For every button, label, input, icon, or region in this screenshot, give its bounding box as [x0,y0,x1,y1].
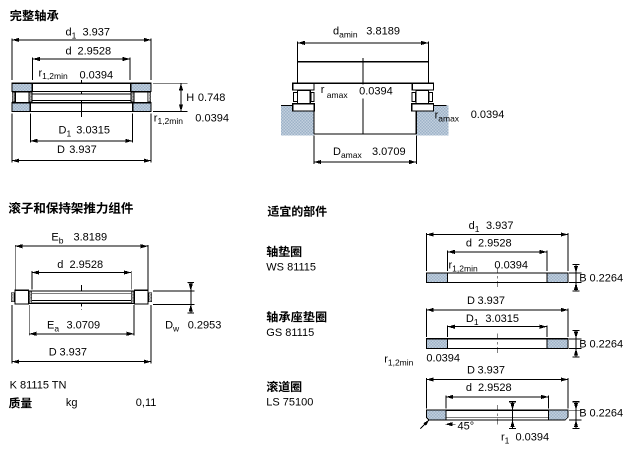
dimension d1 3.937 (WS) [425,233,427,271]
cage bar cross-section right [131,291,134,303]
svg-text:3.937: 3.937 [486,220,514,232]
mass row: 质量 kg 0,11 [9,397,32,408]
svg-text:B: B [579,273,586,285]
housing washer (bottom) outline [12,103,151,112]
dimension B 0.2264 (GS) [569,338,582,340]
housing fill right (abutment) [416,105,448,135]
svg-text:0.0394: 0.0394 [80,69,114,81]
centerline washer LS [496,405,498,426]
svg-text:D: D [49,346,57,358]
roller row left: cage strips and roller [12,92,15,102]
svg-text:0.2264: 0.2264 [590,339,624,351]
washer WS 81115 cross-section [426,273,568,283]
centerline washer GS [496,333,498,354]
label shaft washer (轴垫圈) [267,246,302,257]
dimension d_amin 3.8189 / support shoulder sides [297,42,299,83]
dimension d1 3.937 (top) [11,39,13,80]
svg-text:3.0709: 3.0709 [372,146,406,158]
svg-text:0.0394: 0.0394 [471,109,505,121]
cage rim right end [149,293,152,302]
svg-text:3.0315: 3.0315 [76,125,110,137]
svg-text:K 81115 TN: K 81115 TN [10,380,67,392]
centerline washer WS [496,268,498,289]
dimension H 0.748 (right) [153,82,188,84]
svg-text:0.0394: 0.0394 [359,86,393,98]
mounted rollers left [294,93,298,102]
housing washer left (in seat) [293,104,315,111]
cage bar [29,291,134,303]
housing seat edges [281,104,293,106]
label raceway ring (滚道圈) [267,381,302,392]
svg-text:0.2264: 0.2264 [590,273,624,285]
shaft washer top surface middle segment [314,82,412,84]
raceway inner line (LS) [446,416,548,418]
svg-text:2.9528: 2.9528 [70,259,104,271]
svg-text:3.8189: 3.8189 [366,26,400,38]
svg-text:D: D [467,365,475,377]
housing fill left (abutment) [281,105,314,135]
dimension D1 3.0315 (GS) [447,325,449,337]
svg-text:0.748: 0.748 [198,92,226,104]
dimension d 2.9528 (LS) [445,396,447,409]
svg-text:3.937: 3.937 [478,365,506,377]
dimension d 2.9528 (WS) [447,251,449,272]
roller row right: cage strips and roller [131,92,134,102]
svg-text:d: d [66,46,72,58]
title: roller and cage thrust assembly (滚子和保持架推力组件) [9,202,133,214]
svg-text:H: H [186,92,194,104]
svg-text:3.937: 3.937 [478,295,506,307]
roller right [134,290,148,304]
title: complete bearing (完整轴承) [10,10,58,22]
cage bar cross-section left [29,291,32,303]
svg-text:45°: 45° [458,421,475,433]
svg-text:D: D [57,144,65,156]
housing washer cross-section fill left [13,103,31,111]
shaft washer (top) outline [12,83,151,91]
centerline of complete bearing [81,80,83,117]
cage rim left end [11,293,14,302]
label housing seat washer (轴承座垫圈) [267,311,327,322]
svg-text:3.937: 3.937 [83,27,111,39]
svg-text:d: d [466,382,472,394]
svg-text:amax: amax [327,90,349,100]
svg-text:d: d [57,259,63,271]
chamfer 45 deg callout [421,420,430,429]
dimension D 3.937 (GS) [425,309,427,337]
dimension D1 3.0315 [29,113,31,142]
housing washer right (in seat) [412,104,434,111]
svg-text:3.937: 3.937 [60,346,88,358]
svg-text:LS 75100: LS 75100 [266,397,313,409]
centerline of mounted bearing [362,58,364,84]
dimension D_amax 3.0709 [313,136,315,165]
svg-text:d: d [466,238,472,250]
mounted rollers right [412,93,415,102]
svg-text:3.8189: 3.8189 [74,232,108,244]
svg-text:2.9528: 2.9528 [478,238,512,250]
centerline of K assembly [81,285,83,310]
svg-text:B: B [579,408,586,420]
dimension E_a 3.0709 [28,305,30,336]
shaft washer cross-section fill left [13,84,33,91]
dimension D 3.937 (assembly) [11,305,13,364]
dimension r1 0.0394 (LS) [512,402,514,429]
svg-text:0.2953: 0.2953 [188,320,222,332]
dimension B 0.2264 (LS) [569,409,582,411]
svg-text:3.0709: 3.0709 [67,320,101,332]
dimension D 3.937 (LS) [425,378,427,408]
shaft washer cross-section fill right [131,84,151,91]
svg-text:0.0394: 0.0394 [426,353,460,365]
housing washer cross-section fill right [133,103,151,111]
svg-text:0,11: 0,11 [136,397,157,409]
dimension B 0.2264 (WS) [569,272,582,274]
shaft support shoulder top edge [298,61,429,63]
svg-text:D: D [467,295,475,307]
svg-text:2.9528: 2.9528 [78,46,112,58]
washer LS 75100 cross-section [426,410,568,420]
svg-text:GS 81115: GS 81115 [266,327,314,339]
title: suitable components (适宜的部件) [268,205,327,216]
washer GS 81115 cross-section [426,339,568,349]
roller left [15,290,29,304]
svg-text:r: r [321,84,325,96]
svg-text:3.0315: 3.0315 [485,313,519,325]
shaft bottom edge [314,133,416,135]
dimension d 2.9528 (assembly) [31,271,33,289]
dimension d 2.9528 [32,58,34,80]
shaft washer top bar left cross-section [293,83,314,90]
svg-text:2.9528: 2.9528 [478,382,512,394]
shaft washer top bar right cross-section [412,83,433,90]
dimension E_b 3.8189 [14,245,16,290]
cage middle band [32,94,131,101]
svg-text:3.937: 3.937 [69,144,97,156]
svg-text:kg: kg [66,397,78,409]
dimension D 3.937 (bottom) [11,113,13,162]
svg-text:B: B [579,339,586,351]
svg-text:0.0394: 0.0394 [494,260,528,272]
svg-text:0.0394: 0.0394 [195,112,229,124]
svg-text:0.2264: 0.2264 [590,408,624,420]
svg-text:WS 81115: WS 81115 [266,262,316,274]
dimension D_w 0.2953 (roller diameter) [153,290,195,292]
svg-text:0.0394: 0.0394 [516,432,550,444]
